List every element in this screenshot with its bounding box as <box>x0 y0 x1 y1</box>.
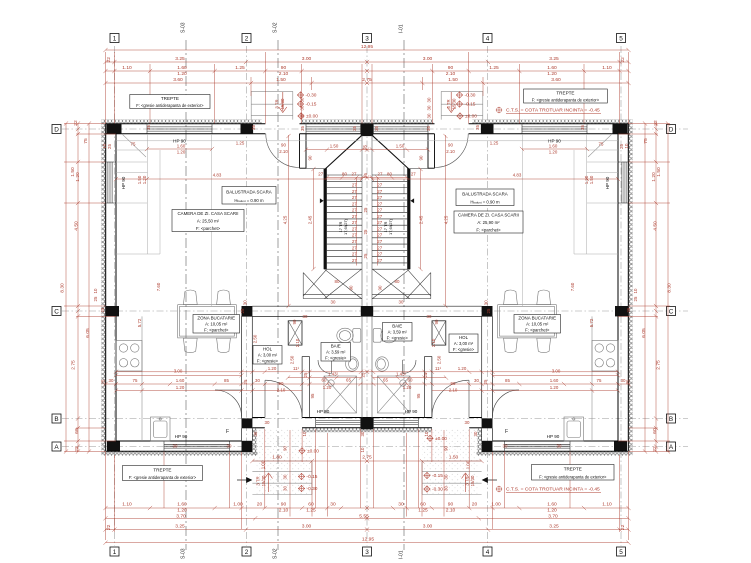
svg-text:85: 85 <box>224 378 229 383</box>
label TREPTE top left <box>130 95 210 109</box>
svg-text:1.20: 1.20 <box>549 149 558 154</box>
svg-text:3.00: 3.00 <box>302 56 312 62</box>
label BALUSTRADA right <box>456 189 514 206</box>
svg-text:25: 25 <box>363 145 368 150</box>
dim row 3.25/3.00 <box>106 61 368 63</box>
svg-text:15/30: 15/30 <box>452 98 457 109</box>
wall stub beside terrace door <box>300 134 307 168</box>
svg-text:3.25: 3.25 <box>175 56 185 62</box>
svg-text:A: 3,59 m²: A: 3,59 m² <box>388 330 408 335</box>
bottom exterior wall left unit <box>106 441 253 451</box>
svg-text:1.60: 1.60 <box>177 502 187 508</box>
svg-text:27: 27 <box>352 189 357 194</box>
svg-text:25: 25 <box>423 372 428 377</box>
svg-text:95: 95 <box>310 393 315 398</box>
svg-text:1.20: 1.20 <box>403 385 412 390</box>
corner detail living room <box>122 134 146 157</box>
svg-text:35: 35 <box>374 126 379 131</box>
svg-text:2.10: 2.10 <box>279 507 289 513</box>
svg-text:30: 30 <box>444 486 449 491</box>
bottom dim rows <box>106 507 368 509</box>
svg-text:27: 27 <box>352 220 357 225</box>
svg-text:25: 25 <box>361 372 366 377</box>
svg-text:2.45: 2.45 <box>308 215 313 224</box>
svg-text:HP 90: HP 90 <box>317 409 330 414</box>
svg-text:95: 95 <box>416 393 421 398</box>
svg-text:1.20: 1.20 <box>177 149 186 154</box>
level markers bottom <box>299 447 306 454</box>
svg-text:HP 90: HP 90 <box>173 139 186 144</box>
svg-text:27: 27 <box>377 226 382 231</box>
svg-text:25: 25 <box>483 379 488 384</box>
svg-text:30: 30 <box>303 314 308 319</box>
svg-text:22: 22 <box>620 524 626 530</box>
svg-text:17,6/(27): 17,6/(27) <box>388 218 393 235</box>
svg-text:1.00: 1.00 <box>233 502 243 508</box>
svg-text:30: 30 <box>253 431 258 436</box>
svg-text:HP 90: HP 90 <box>175 434 188 439</box>
svg-text:1.20: 1.20 <box>584 175 589 184</box>
svg-text:27: 27 <box>352 233 357 238</box>
svg-text:27: 27 <box>352 258 357 263</box>
svg-text:22: 22 <box>74 446 80 452</box>
svg-text:90: 90 <box>419 155 424 160</box>
svg-text:1.50: 1.50 <box>276 77 286 83</box>
svg-text:1.60: 1.60 <box>549 143 558 148</box>
svg-text:25: 25 <box>626 307 631 312</box>
svg-text:25: 25 <box>363 229 368 234</box>
svg-text:22: 22 <box>106 524 112 530</box>
svg-text:I-01: I-01 <box>399 24 405 33</box>
svg-text:2.10: 2.10 <box>446 149 455 154</box>
svg-text:A: A <box>54 444 59 451</box>
svg-text:1.50: 1.50 <box>330 144 339 149</box>
svg-text:90: 90 <box>451 381 456 386</box>
svg-text:1: 1 <box>113 35 117 42</box>
svg-text:27: 27 <box>377 183 382 188</box>
lower landing with X <box>303 269 362 298</box>
interior dim line stairs top <box>306 149 367 151</box>
svg-text:HOL: HOL <box>459 335 469 340</box>
svg-text:4.83: 4.83 <box>513 173 522 178</box>
svg-text:25: 25 <box>93 296 98 301</box>
svg-text:1.50: 1.50 <box>137 175 142 184</box>
svg-text:30: 30 <box>255 378 260 383</box>
stair landing top edge <box>306 168 327 170</box>
svg-text:5.72: 5.72 <box>589 318 594 327</box>
svg-text:27: 27 <box>352 214 357 219</box>
bottom wall of hall/bath section <box>252 418 367 428</box>
party wall center <box>361 136 363 419</box>
kitchen dim line <box>116 374 242 376</box>
svg-text:20: 20 <box>472 502 478 508</box>
svg-text:-0.15: -0.15 <box>306 102 317 108</box>
chairs <box>183 290 230 353</box>
svg-text:B: B <box>669 416 673 423</box>
svg-text:3.70: 3.70 <box>548 514 558 520</box>
svg-text:2.10: 2.10 <box>446 71 456 77</box>
column grid2/C <box>242 306 253 317</box>
svg-text:1.25: 1.25 <box>489 65 499 71</box>
svg-text:25: 25 <box>107 144 112 149</box>
svg-text:15/30: 15/30 <box>261 475 266 486</box>
svg-text:5.55: 5.55 <box>359 514 369 520</box>
svg-text:A: 10,05 m²: A: 10,05 m² <box>526 322 549 327</box>
kitchen counter left wall <box>141 316 143 441</box>
red dimension lines left half <box>64 48 369 545</box>
svg-text:75: 75 <box>599 142 604 147</box>
svg-text:27: 27 <box>352 252 357 257</box>
column center bottom <box>361 418 367 430</box>
svg-text:1.43¹: 1.43¹ <box>396 371 407 376</box>
svg-text:BAIE: BAIE <box>392 323 402 328</box>
svg-text:TREPTE: TREPTE <box>153 467 171 472</box>
insulation hatch left wall <box>101 120 105 456</box>
svg-text:1.50: 1.50 <box>448 77 458 83</box>
svg-text:A: A <box>669 444 674 451</box>
svg-text:4: 4 <box>486 549 490 556</box>
svg-text:10: 10 <box>93 288 98 293</box>
svg-text:25: 25 <box>100 307 105 312</box>
svg-text:27: 27 <box>352 239 357 244</box>
svg-text:60: 60 <box>420 502 426 508</box>
svg-text:F: <gresie>: F: <gresie> <box>453 347 475 352</box>
label BALUSTRADA left <box>222 187 276 205</box>
svg-text:27: 27 <box>378 172 383 177</box>
svg-text:30: 30 <box>173 444 178 449</box>
svg-text:1.60: 1.60 <box>547 502 557 508</box>
svg-text:27: 27 <box>352 245 357 250</box>
svg-text:1.80: 1.80 <box>272 454 282 460</box>
svg-text:-0.30: -0.30 <box>432 487 443 493</box>
CTS note top right <box>496 107 502 113</box>
svg-text:8.30: 8.30 <box>60 283 66 293</box>
porch step wall <box>242 418 253 428</box>
svg-text:1.50: 1.50 <box>396 144 405 149</box>
svg-text:1.20: 1.20 <box>177 71 187 77</box>
svg-text:35: 35 <box>300 126 305 131</box>
ventilation shaft <box>288 321 302 345</box>
svg-text:F: <gresie antiderapanta de ex: F: <gresie antiderapanta de exterior> <box>532 98 600 103</box>
label BAIE left <box>321 343 351 362</box>
label HOL left <box>253 346 282 365</box>
svg-text:1.60: 1.60 <box>177 65 187 71</box>
window HP90 left wall glazing <box>106 162 115 203</box>
label TREPTE bottom right <box>532 465 615 481</box>
svg-text:35: 35 <box>426 126 431 131</box>
svg-text:90: 90 <box>378 285 383 290</box>
svg-text:85: 85 <box>505 378 510 383</box>
top terrace steps <box>251 91 293 119</box>
stair rail left <box>324 169 327 270</box>
label HOL right <box>449 334 478 353</box>
svg-text:5: 5 <box>619 35 623 42</box>
svg-text:35: 35 <box>352 126 357 131</box>
svg-text:25: 25 <box>101 379 106 384</box>
svg-text:80: 80 <box>335 279 340 284</box>
svg-text:ZONA BUCATARIE: ZONA BUCATARIE <box>197 315 235 320</box>
svg-text:27: 27 <box>352 183 357 188</box>
svg-text:2.10: 2.10 <box>279 71 289 77</box>
svg-text:D: D <box>54 126 59 133</box>
svg-text:F: <gresie antiderapanta de ex: F: <gresie antiderapanta de exterior> <box>539 474 607 479</box>
left exterior wall <box>106 124 116 452</box>
svg-text:S-02: S-02 <box>273 22 279 33</box>
shower with X <box>324 376 357 413</box>
svg-text:I-01: I-01 <box>399 550 405 559</box>
svg-text:12.95: 12.95 <box>362 536 375 542</box>
svg-text:5.72: 5.72 <box>137 318 142 327</box>
svg-text:1.20: 1.20 <box>142 175 147 184</box>
svg-text:10: 10 <box>633 288 638 293</box>
svg-text:90: 90 <box>281 502 287 508</box>
svg-text:3.00: 3.00 <box>302 523 312 529</box>
svg-text:75: 75 <box>597 378 602 383</box>
label BAIE right <box>383 323 413 342</box>
svg-text:35: 35 <box>146 125 151 130</box>
staircase flare diagonals <box>325 136 361 169</box>
svg-text:4.50: 4.50 <box>653 221 659 231</box>
svg-text:25: 25 <box>363 207 368 212</box>
stove burners <box>116 341 142 372</box>
svg-text:30: 30 <box>331 300 336 305</box>
svg-text:HOL: HOL <box>263 346 273 351</box>
svg-text:10: 10 <box>624 143 629 148</box>
column top-left corner <box>107 124 122 134</box>
label CAMERA left <box>172 210 244 232</box>
svg-text:2.50: 2.50 <box>253 334 258 343</box>
svg-text:F: <gresie>: F: <gresie> <box>257 359 279 364</box>
svg-text:30: 30 <box>109 378 114 383</box>
svg-text:2.10: 2.10 <box>431 338 436 347</box>
svg-text:A: 3,00 m²: A: 3,00 m² <box>454 341 474 346</box>
svg-text:22: 22 <box>106 57 112 63</box>
svg-text:10: 10 <box>102 143 107 148</box>
svg-text:30: 30 <box>265 420 270 425</box>
svg-text:60: 60 <box>308 502 314 508</box>
svg-text:A: 25,90 m²: A: 25,90 m² <box>477 220 500 225</box>
top exterior wall <box>106 124 368 134</box>
svg-text:80: 80 <box>395 279 400 284</box>
bath sink <box>346 357 359 371</box>
svg-text:A: 10,05 m²: A: 10,05 m² <box>205 322 228 327</box>
svg-text:Hbalust = 0.90 m: Hbalust = 0.90 m <box>470 200 500 205</box>
svg-text:65: 65 <box>383 378 388 383</box>
svg-text:60: 60 <box>652 428 658 434</box>
svg-text:3 TR: 3 TR <box>256 476 261 485</box>
svg-text:CAMERA DE ZI. CASA SCARII: CAMERA DE ZI. CASA SCARII <box>178 211 239 216</box>
svg-text:27: 27 <box>352 172 357 177</box>
svg-text:-0.30: -0.30 <box>465 93 476 99</box>
svg-text:2.10: 2.10 <box>279 149 288 154</box>
svg-text:27: 27 <box>377 233 382 238</box>
svg-text:30: 30 <box>243 300 248 305</box>
svg-text:1.00: 1.00 <box>466 460 471 469</box>
svg-text:1.25: 1.25 <box>235 65 245 71</box>
svg-text:TREPTE: TREPTE <box>161 96 179 101</box>
svg-text:27: 27 <box>352 201 357 206</box>
svg-text:B: B <box>54 416 58 423</box>
svg-text:2.75: 2.75 <box>362 454 372 460</box>
svg-text:27: 27 <box>377 220 382 225</box>
svg-text:22: 22 <box>653 120 659 126</box>
svg-text:1.20: 1.20 <box>323 385 332 390</box>
column grid2 top <box>241 124 254 134</box>
svg-text:3.00: 3.00 <box>174 369 183 374</box>
svg-text:2: 2 <box>245 549 249 556</box>
svg-text:HP 90: HP 90 <box>548 139 561 144</box>
svg-text:25: 25 <box>363 253 368 258</box>
building geometry left half (mirrored for right) <box>101 91 367 494</box>
toilet <box>337 328 361 343</box>
svg-text:10: 10 <box>302 431 307 436</box>
svg-text:30: 30 <box>427 314 432 319</box>
svg-text:2.50: 2.50 <box>290 355 295 364</box>
bath door <box>318 360 332 374</box>
svg-text:HP 90: HP 90 <box>121 176 126 189</box>
svg-text:3.60: 3.60 <box>173 77 183 83</box>
svg-text:25: 25 <box>626 379 631 384</box>
svg-text:25: 25 <box>240 308 245 313</box>
red dimension texts <box>60 44 673 543</box>
entry door bottom (hinge left) <box>265 380 302 417</box>
svg-text:A: 3,59 m²: A: 3,59 m² <box>326 350 346 355</box>
svg-text:±0.00: ±0.00 <box>435 436 447 442</box>
svg-text:27: 27 <box>352 226 357 231</box>
svg-text:1.20: 1.20 <box>177 507 187 513</box>
svg-text:C: C <box>54 308 59 315</box>
svg-text:90: 90 <box>349 285 354 290</box>
svg-text:12.95: 12.95 <box>361 44 374 50</box>
svg-text:1.50: 1.50 <box>589 175 594 184</box>
svg-text:90: 90 <box>434 319 439 324</box>
svg-text:F: <parchet>: F: <parchet> <box>196 226 221 231</box>
svg-text:2: 2 <box>245 35 249 42</box>
svg-text:A: 3,00 m²: A: 3,00 m² <box>258 353 278 358</box>
svg-text:1.25: 1.25 <box>236 140 245 145</box>
svg-text:1.00: 1.00 <box>491 502 501 508</box>
insulation hatch center bottom wall <box>302 428 367 432</box>
right half mirrored <box>367 91 633 494</box>
svg-text:HP 90: HP 90 <box>547 434 560 439</box>
svg-text:TREPTE: TREPTE <box>564 467 582 472</box>
svg-text:1.10: 1.10 <box>602 65 612 71</box>
svg-text:30: 30 <box>465 420 470 425</box>
insulation hatch top wall <box>106 120 262 124</box>
svg-text:10: 10 <box>360 447 365 452</box>
svg-text:4.25: 4.25 <box>283 215 288 224</box>
svg-text:1.10: 1.10 <box>122 502 132 508</box>
svg-text:90: 90 <box>279 381 284 386</box>
svg-text:F: <gresie>: F: <gresie> <box>387 336 409 341</box>
svg-text:BAIE: BAIE <box>331 343 341 348</box>
column center top <box>361 124 367 137</box>
svg-text:25: 25 <box>303 372 308 377</box>
svg-text:27: 27 <box>377 245 382 250</box>
column left wall bottom corner <box>107 441 120 452</box>
svg-text:25: 25 <box>486 308 491 313</box>
svg-text:27: 27 <box>352 195 357 200</box>
svg-text:1.20: 1.20 <box>550 385 559 390</box>
svg-text:-0.30: -0.30 <box>307 486 318 492</box>
svg-text:90: 90 <box>281 65 287 71</box>
svg-text:C.T.S. = COTA TROTUAR INCINTA: C.T.S. = COTA TROTUAR INCINTA = -0.45 <box>506 487 600 493</box>
svg-text:1.50: 1.50 <box>449 454 459 460</box>
dining table <box>178 305 237 338</box>
svg-text:80: 80 <box>342 172 347 177</box>
svg-text:22: 22 <box>652 446 658 452</box>
terrace door top (hinge right) <box>266 134 300 168</box>
svg-text:15/30: 15/30 <box>470 475 475 486</box>
extension lines top <box>105 52 107 124</box>
svg-text:90: 90 <box>448 65 454 71</box>
svg-text:90: 90 <box>308 155 313 160</box>
svg-text:1.25: 1.25 <box>490 140 499 145</box>
svg-text:8.30: 8.30 <box>667 283 673 293</box>
svg-text:C: C <box>669 308 674 315</box>
label CAMERA right <box>454 211 523 233</box>
svg-text:75: 75 <box>643 138 649 144</box>
interior dim line 4.83 <box>116 178 362 180</box>
svg-text:1.60: 1.60 <box>547 65 557 71</box>
dim row 3.60/1.50/2.75 <box>106 82 368 84</box>
interior wall grid C <box>252 306 360 316</box>
svg-text:2.10: 2.10 <box>295 338 300 347</box>
svg-text:27: 27 <box>377 201 382 206</box>
left dim columns <box>65 124 67 452</box>
svg-text:35: 35 <box>475 125 480 130</box>
svg-text:27: 27 <box>377 189 382 194</box>
svg-text:27: 27 <box>318 172 323 177</box>
svg-text:90: 90 <box>281 143 286 148</box>
svg-text:30: 30 <box>484 300 489 305</box>
svg-text:F: <parchet>: F: <parchet> <box>476 227 501 232</box>
bath west wall <box>302 357 309 418</box>
svg-text:-0.30: -0.30 <box>306 93 317 99</box>
svg-text:TREPTE: TREPTE <box>556 91 574 96</box>
bottom entry porch + steps <box>257 430 312 495</box>
svg-text:3.60: 3.60 <box>551 77 561 83</box>
interior wall hall west <box>242 316 253 418</box>
svg-text:7.60: 7.60 <box>156 282 161 291</box>
svg-text:1.60: 1.60 <box>550 378 559 383</box>
svg-text:ZONA BUCATARIE: ZONA BUCATARIE <box>518 315 556 320</box>
svg-text:1.20: 1.20 <box>268 366 277 371</box>
svg-text:30: 30 <box>427 97 432 102</box>
label TREPTE bottom left <box>123 466 203 481</box>
svg-text:30: 30 <box>444 474 449 479</box>
svg-text:30: 30 <box>227 444 232 449</box>
svg-text:3 TR: 3 TR <box>446 99 451 108</box>
svg-text:3.00: 3.00 <box>552 369 561 374</box>
porch dim line <box>252 460 367 462</box>
svg-text:27: 27 <box>411 172 416 177</box>
fridge letters <box>226 429 509 435</box>
svg-text:30: 30 <box>474 378 479 383</box>
kitchen sink <box>151 417 171 441</box>
svg-text:C.T.S. = COTA TROTUAR INCINTA: C.T.S. = COTA TROTUAR INCINTA = -0.45 <box>506 108 600 114</box>
extension lines bottom <box>105 452 107 541</box>
grid axes dashed lines <box>62 46 688 546</box>
dim row total 12.95 <box>106 49 368 51</box>
svg-text:11¹: 11¹ <box>435 366 442 371</box>
svg-text:HP 90: HP 90 <box>405 409 418 414</box>
svg-text:3 TR: 3 TR <box>274 99 279 108</box>
svg-text:F: <parchet>: F: <parchet> <box>525 328 550 333</box>
svg-text:2.75: 2.75 <box>71 360 77 370</box>
svg-text:1.20: 1.20 <box>547 71 557 77</box>
svg-text:S-03: S-03 <box>181 22 187 33</box>
